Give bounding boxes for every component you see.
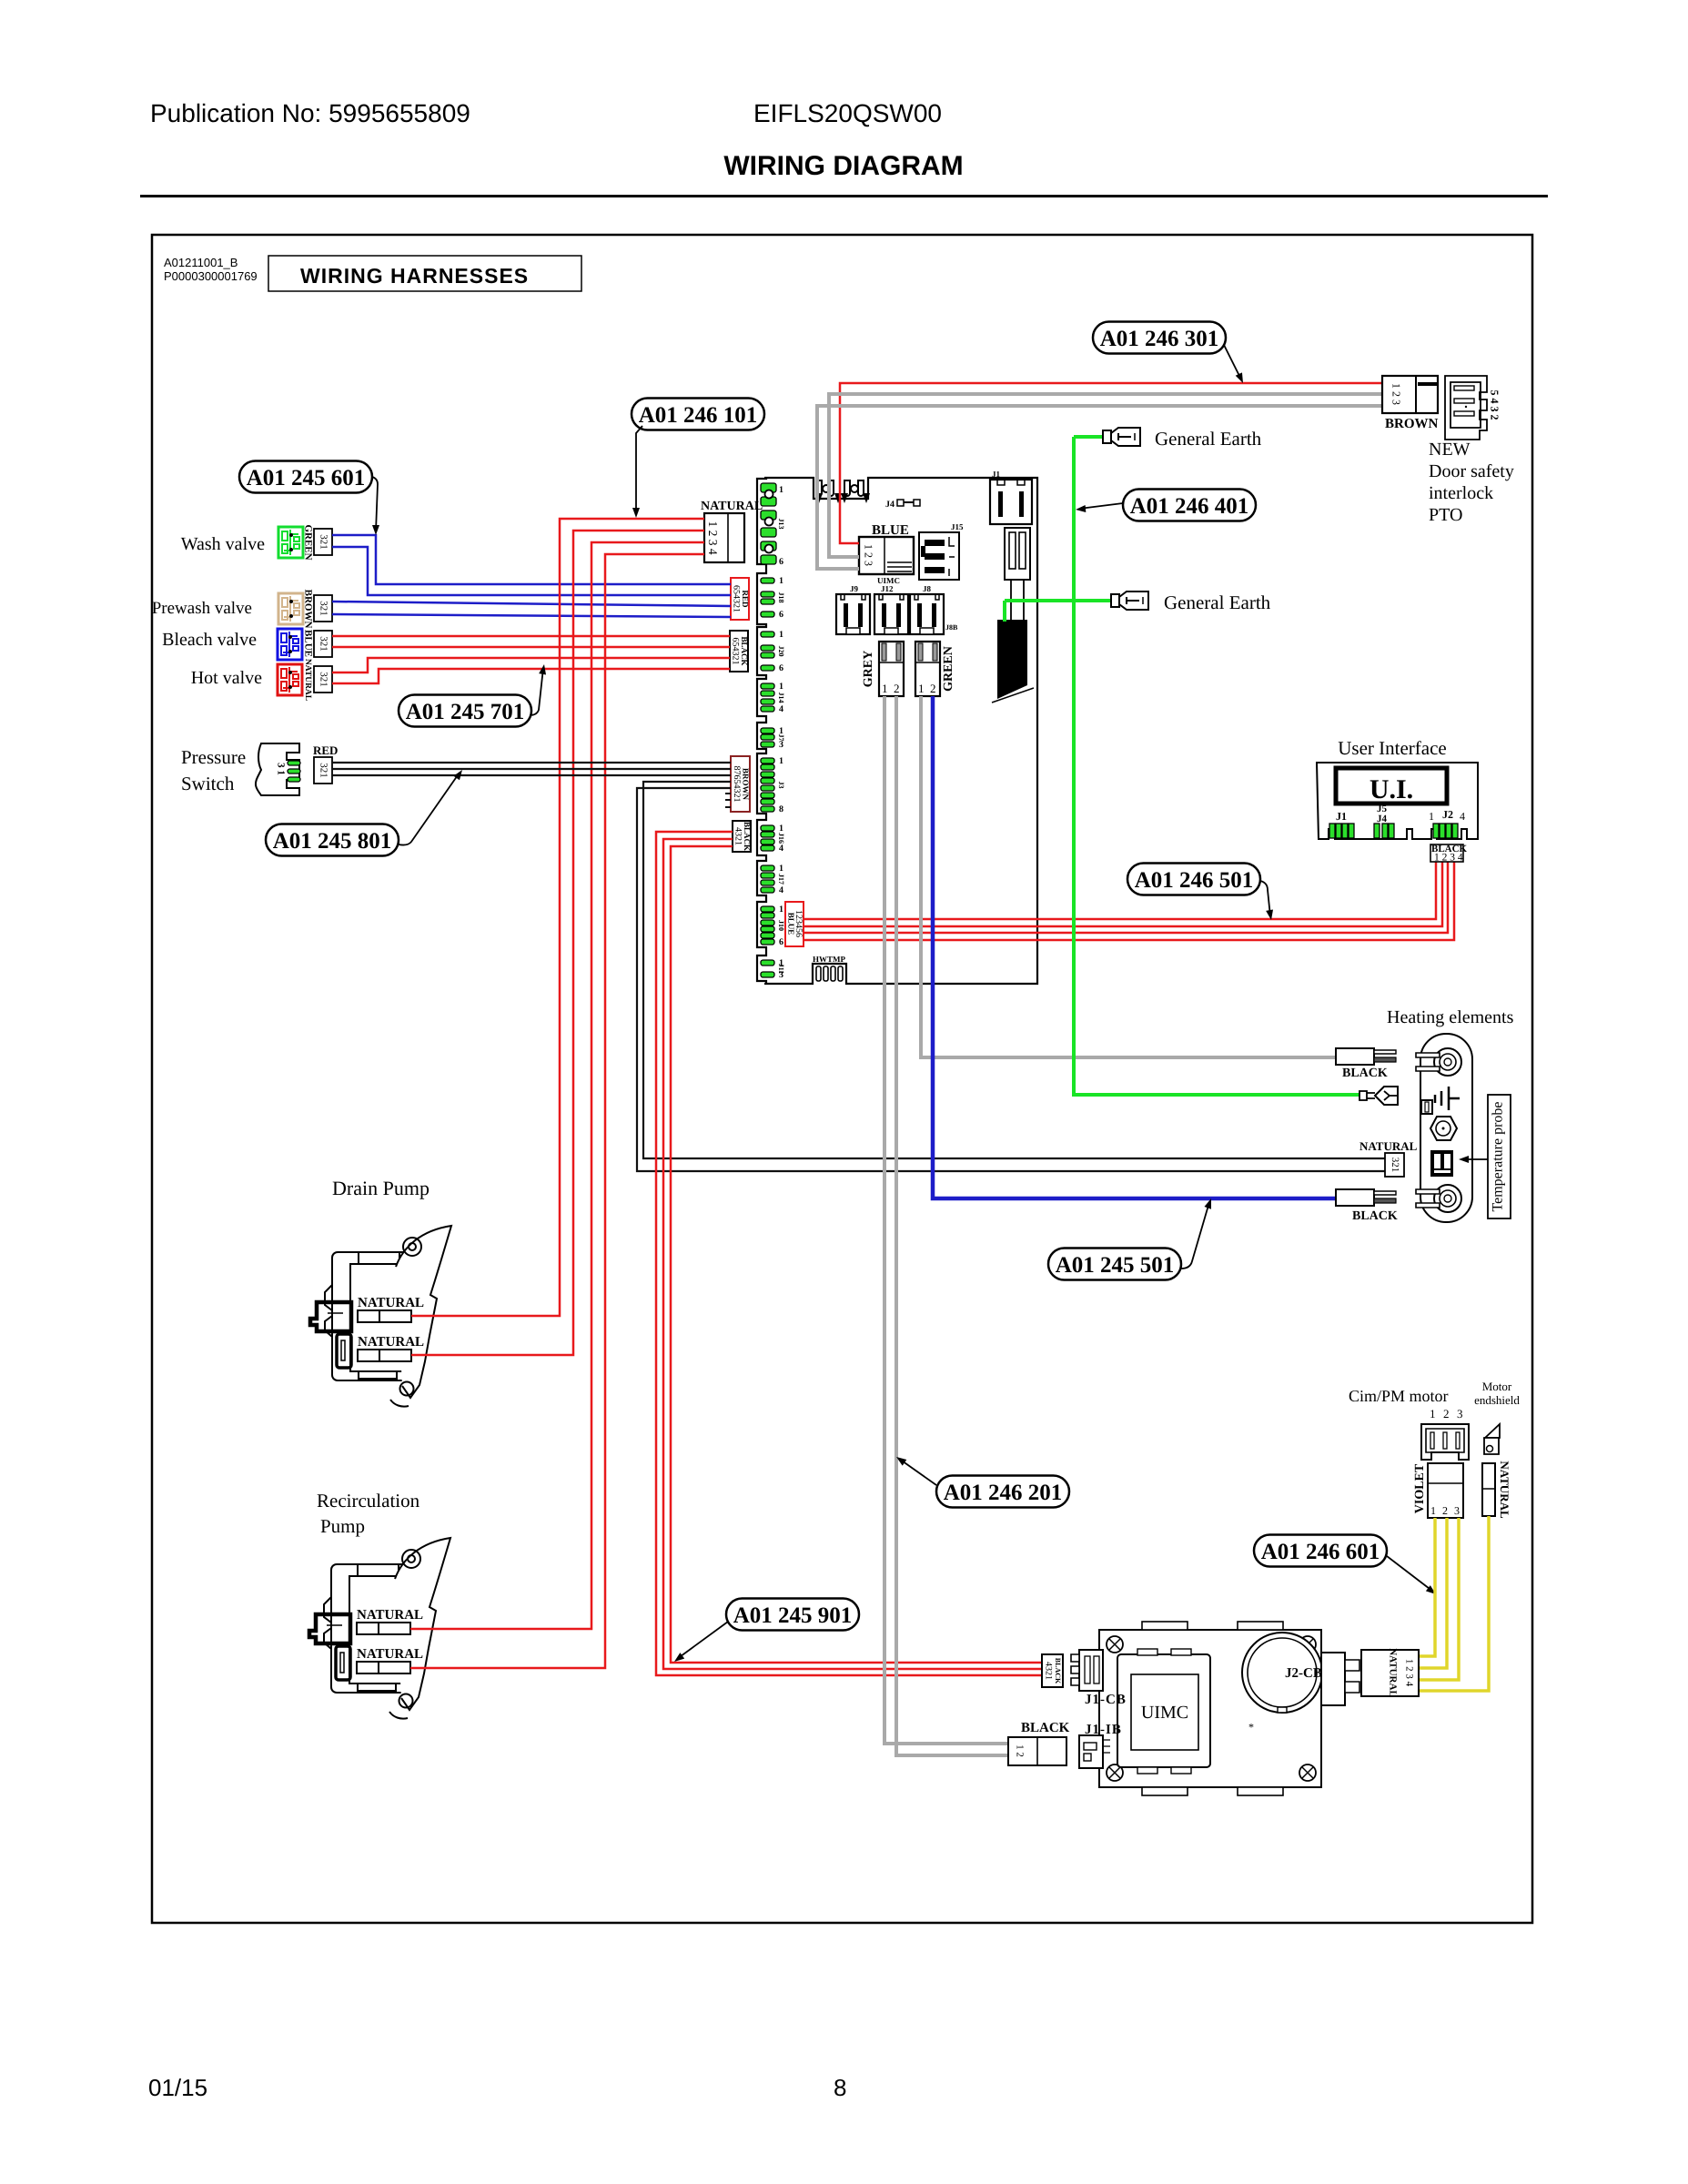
door lock block [997,620,1027,699]
control board outline [764,478,1037,984]
wire interlock grey 1 [829,394,1382,557]
svg-text:1: 1 [779,864,783,874]
wire yellow 2 [1419,1518,1447,1668]
svg-text:A01 246 101: A01 246 101 [639,403,758,428]
svg-text:NATURAL: NATURAL [358,1335,424,1350]
svg-text:4: 4 [779,844,783,854]
svg-text:4321: 4321 [1044,1662,1054,1680]
wire interlock grey 2 [817,406,1382,569]
svg-text:WIRING DIAGRAM: WIRING DIAGRAM [723,151,963,181]
wire temp probe black 1 [643,782,1385,1158]
label A01 245 701 [399,695,531,727]
svg-text:J14: J14 [777,693,785,703]
svg-text:BLACK: BLACK [1054,1658,1062,1684]
svg-text:General Earth: General Earth [1164,591,1271,613]
label A01 245 801 [266,824,399,856]
svg-text:321: 321 [318,534,329,550]
svg-text:BLACK: BLACK [740,636,749,665]
svg-text:8: 8 [779,804,783,814]
svg-text:Recirculation: Recirculation [317,1490,420,1512]
svg-text:J18: J18 [777,592,785,603]
svg-text:1: 1 [779,756,783,766]
svg-text:J12: J12 [881,584,894,593]
svg-text:4: 4 [779,704,783,714]
connector J7 pins [761,728,774,733]
svg-text:Cim/PM motor: Cim/PM motor [1349,1387,1449,1405]
svg-text:Heating elements: Heating elements [1387,1007,1514,1027]
svg-text:A01 246 601: A01 246 601 [1261,1540,1380,1564]
svg-text:Drain Pump: Drain Pump [332,1177,430,1199]
svg-text:A01 245 901: A01 245 901 [733,1603,853,1628]
bleach valve [278,629,302,660]
svg-text:1: 1 [779,682,783,692]
UIMC J1-CB connector [1079,1650,1103,1691]
wire general earth stub [1003,601,1006,622]
wire recirc pump red 2 [410,554,704,1668]
svg-text:BLUE: BLUE [872,523,909,538]
hot valve connector 321 [314,666,332,693]
svg-text:NATURAL: NATURAL [357,1647,423,1662]
svg-text:VIOLET: VIOLET [1413,1463,1427,1513]
svg-text:J16: J16 [777,833,785,844]
svg-text:J20: J20 [777,646,785,657]
svg-text:General Earth: General Earth [1155,428,1262,450]
svg-text:1 2 3: 1 2 3 [862,544,874,566]
UI display box [1336,768,1447,804]
svg-text:321: 321 [318,672,329,687]
wire bleach valve red 1 [332,635,730,638]
svg-text:Door safety: Door safety [1429,461,1514,481]
svg-text:87654321: 87654321 [732,766,742,803]
connector UIMC J12 [874,594,908,634]
svg-text:6: 6 [779,663,783,673]
connector J13 pins [761,483,776,492]
heating element terminal bottom [1434,1185,1461,1212]
svg-text:J8B: J8B [945,623,958,632]
svg-text:RED: RED [313,743,338,757]
svg-text:BLACK: BLACK [1352,1209,1398,1223]
svg-text:Temperature probe: Temperature probe [1491,1101,1506,1211]
svg-text:BLUE: BLUE [302,630,313,657]
svg-text:1: 1 [918,682,925,695]
wash valve [278,527,303,558]
svg-text:2: 2 [894,682,900,695]
svg-text:Wash valve: Wash valve [181,534,265,554]
connector J3 pins [761,758,774,763]
connector J20 pins [761,632,774,637]
wire pressure switch 2 [332,768,731,770]
svg-text:1 2 3 4: 1 2 3 4 [1403,1659,1414,1687]
UIMC screw BR [1299,1764,1316,1781]
label A01 246 501 [1127,864,1260,895]
svg-text:endshield: endshield [1474,1393,1520,1407]
svg-text:BROWN: BROWN [1385,417,1439,431]
svg-text:A01 246 301: A01 246 301 [1100,327,1219,351]
label A01 246 401 [1123,490,1256,521]
prewash valve [278,593,303,624]
wire UIMC red 2 [663,839,1044,1669]
wire grey motor 1 [884,696,1008,1744]
svg-text:J7: J7 [777,734,785,742]
wire pressure switch 3 [332,774,731,776]
svg-text:A01 245 601: A01 245 601 [247,466,366,490]
heating element probe socket [1430,1150,1453,1177]
wash valve connector 321 [314,529,332,555]
svg-text:4321: 4321 [733,827,743,845]
temperature probe box [1488,1095,1511,1218]
svg-text:3: 3 [1457,1407,1463,1421]
wire UI red 3 [804,861,1448,933]
cim VIOLET connector [1428,1463,1463,1518]
svg-text:NATURAL: NATURAL [358,1296,424,1310]
svg-text:J9: J9 [850,584,859,593]
svg-text:NATURAL: NATURAL [1498,1461,1511,1519]
board connector label 4321 BLACK [733,821,751,852]
wire temp probe black 2 [637,788,1385,1171]
heater blue terminal [1336,1189,1374,1206]
wire yellow 3 [1419,1518,1459,1680]
pressure switch body [256,743,299,795]
svg-text:1: 1 [1429,810,1434,823]
svg-text:J2: J2 [1442,808,1453,821]
svg-text:A01 245 701: A01 245 701 [406,700,525,724]
svg-text:J13: J13 [777,519,785,530]
svg-text:321: 321 [318,763,329,778]
wire yellow 1 [1419,1518,1435,1656]
svg-text:HWTMP: HWTMP [813,955,845,964]
svg-text:J10: J10 [777,920,785,931]
svg-text:1: 1 [779,905,783,915]
UIMC BLACK 12 connector [1008,1737,1066,1765]
label A01 246 201 [936,1476,1069,1508]
svg-text:1: 1 [1430,1407,1436,1421]
wire pressure switch 1 [332,762,731,763]
wire drain pump red 2 [411,531,704,1355]
svg-text:2: 2 [930,682,936,695]
fuse connector arrows [815,493,823,503]
svg-text:A01 246 201: A01 246 201 [944,1481,1063,1505]
svg-text:1 2 3 4: 1 2 3 4 [1434,853,1463,864]
UIMC inner module [1117,1654,1210,1767]
svg-text:*: * [1248,1721,1254,1734]
svg-text:NATURAL: NATURAL [357,1608,423,1623]
wire UI red 4 [804,861,1454,940]
recirculation pump [309,1538,450,1719]
svg-text:6: 6 [779,937,783,947]
svg-text:EIFLS20QSW00: EIFLS20QSW00 [753,99,942,127]
svg-text:WIRING HARNESSES: WIRING HARNESSES [300,264,529,288]
connector J11 pins [761,960,774,966]
cim motor connector [1421,1424,1469,1460]
wiring harnesses box [268,256,581,291]
UIMC J1-IB connector [1079,1735,1103,1768]
svg-text:A01 246 501: A01 246 501 [1135,868,1254,893]
UIMC screw TR [1299,1636,1316,1653]
svg-text:321: 321 [318,636,329,652]
general earth terminal 2 [1111,594,1119,607]
connector J18 pins [761,578,774,583]
wire UIMC red 1 [656,832,1044,1675]
label A01 246 101 [632,399,764,430]
bleach valve connector 321 [314,631,332,657]
UI BLACK connector [1430,844,1463,862]
wire recirc pump red 1 [410,542,704,1629]
svg-text:654321: 654321 [732,585,742,612]
svg-text:123456: 123456 [793,910,804,937]
svg-text:NATURAL: NATURAL [1387,1648,1398,1697]
svg-text:NATURAL: NATURAL [303,659,312,701]
svg-text:NATURAL: NATURAL [701,500,763,513]
heating element nut [1430,1117,1457,1140]
svg-text:J4: J4 [885,500,895,510]
title rule [140,195,1548,197]
connector J16 pins [761,825,774,831]
BLUE 123 connector [859,537,914,574]
general earth terminal 1 [1103,430,1111,443]
svg-text:1: 1 [779,576,783,586]
svg-text:A01 245 801: A01 245 801 [273,829,392,854]
svg-text:01/15: 01/15 [148,2074,207,2101]
svg-text:BLACK: BLACK [743,822,752,851]
svg-text:BLACK: BLACK [1342,1067,1388,1080]
svg-text:User Interface: User Interface [1338,737,1447,759]
wire interlock red [840,383,1382,543]
wire yellow 4 [1419,1516,1489,1691]
J15 connector [919,532,959,580]
svg-text:A01 246 401: A01 246 401 [1130,494,1249,519]
wire hot valve red 1 [332,658,730,672]
wire general earth spade 2 [1005,599,1111,602]
UIMC J2-CB circle [1242,1633,1322,1713]
svg-text:U.I.: U.I. [1370,774,1413,804]
svg-text:1 2: 1 2 [1014,1744,1025,1757]
wire grey motor 2 [896,696,1008,1755]
svg-text:BLACK: BLACK [1021,1721,1070,1735]
svg-text:Pressure: Pressure [181,746,246,768]
svg-text:J17: J17 [777,874,785,885]
svg-text:Hot valve: Hot valve [191,668,262,688]
svg-text:5 4 3 2: 5 4 3 2 [1488,390,1501,420]
label A01 245 601 [239,461,372,493]
svg-text:1: 1 [1430,1504,1436,1517]
svg-text:3: 3 [1454,1504,1460,1517]
wire general earth spade 1 [1074,435,1103,439]
svg-text:1 2 3 4: 1 2 3 4 [706,521,720,554]
diagram border [152,235,1532,1923]
board connector label 654321 BLACK [730,631,748,672]
svg-text:NEW: NEW [1429,440,1471,460]
heating element terminal top [1434,1048,1461,1076]
wire UIMC red 3 [671,846,1044,1663]
UIMC screw BL [1107,1764,1123,1781]
endshield connector [1482,1463,1495,1516]
UIMC right connector [1321,1653,1345,1705]
svg-text:GREY: GREY [862,651,875,687]
svg-text:J1: J1 [992,470,1001,479]
svg-text:J4: J4 [1377,814,1388,824]
svg-text:6: 6 [779,610,783,620]
UIMC NATURAL connector [1361,1650,1419,1696]
svg-text:321: 321 [1390,1158,1400,1173]
door lock connector [1005,528,1030,580]
svg-text:1: 1 [779,630,783,640]
svg-text:J8: J8 [923,584,932,593]
UIMC screw TL [1107,1636,1123,1653]
svg-text:interlock: interlock [1429,483,1493,503]
svg-text:Publication No: 5995655809: Publication No: 5995655809 [150,99,470,127]
board top fuse connector [816,480,822,496]
svg-text:Bleach valve: Bleach valve [162,630,257,650]
svg-text:3 1: 3 1 [275,763,286,775]
temp probe arrow [1462,1158,1488,1160]
wire bleach valve red 2 [332,646,730,649]
label A01 246 301 [1093,322,1226,354]
connector J10 pins [761,906,774,912]
board connector label 654321 RED [731,578,749,620]
svg-text:1 2 3: 1 2 3 [1390,383,1402,405]
svg-text:321: 321 [318,601,329,616]
BROWN interlock connector [1382,376,1438,413]
wire general earth vertical [1074,437,1361,1095]
connector J14 pins [761,683,774,689]
svg-text:2: 2 [1443,1407,1450,1421]
svg-text:4: 4 [779,885,783,895]
label A01 246 601 [1254,1535,1387,1567]
svg-text:J1: J1 [1336,810,1347,823]
svg-text:2: 2 [1442,1504,1448,1517]
board connector label 87654321 BROWN [731,756,750,812]
GREEN connector [915,642,940,696]
svg-text:8: 8 [834,2074,846,2101]
svg-text:GREEN: GREEN [942,646,955,692]
svg-text:Switch: Switch [181,773,235,794]
svg-text:A01 245 501: A01 245 501 [1056,1253,1175,1278]
svg-text:4: 4 [1460,810,1465,823]
wire blue heater [933,696,1336,1198]
heater green spade [1359,1091,1367,1100]
connector J1 [990,480,1032,524]
svg-text:J3: J3 [777,782,785,789]
label A01 245 501 [1048,1249,1181,1280]
GREY connector [879,642,904,696]
heating element body [1420,1034,1472,1222]
wire wash valve blue 2 [332,547,731,595]
user interface board [1317,763,1478,839]
svg-text:J1-CB: J1-CB [1085,1693,1127,1707]
door safety PTO connector [1445,376,1487,440]
svg-text:J15: J15 [951,522,964,531]
svg-text:RED: RED [741,590,750,608]
svg-text:UIMC: UIMC [1141,1703,1188,1723]
BROWN connector stubs [725,793,731,794]
connector J8 [910,594,944,634]
svg-text:1: 1 [882,682,888,695]
svg-text:6: 6 [779,557,783,567]
pressure switch connector 321 [314,757,332,784]
wire hot valve red 2 [332,669,730,683]
svg-text:P0000300001769: P0000300001769 [164,269,258,283]
svg-text:Prewash valve: Prewash valve [152,599,252,618]
svg-text:NATURAL: NATURAL [1359,1139,1418,1153]
wire wash valve blue 1 [332,535,731,584]
label A01 245 901 [726,1599,859,1631]
wire UI red 1 [804,861,1436,919]
board connector label BLUE 123456 [785,902,804,946]
wire UI red 2 [804,861,1442,926]
wire drain pump red 1 [411,519,704,1316]
temp probe connector [1385,1153,1404,1177]
svg-text:Pump: Pump [320,1515,365,1537]
svg-text:A01211001_B: A01211001_B [164,256,238,269]
svg-text:J11: J11 [777,964,785,975]
prewash valve connector 321 [314,595,332,622]
connector J9 [836,594,870,634]
svg-text:654321: 654321 [731,638,741,665]
board NATURAL connector [704,513,744,562]
wire prewash valve blue 1 [332,602,731,606]
heater grey terminal [1336,1048,1374,1065]
connector J17 pins [761,865,774,871]
svg-text:BROWN: BROWN [302,590,313,629]
heating element earth symbol [1435,1087,1460,1110]
svg-text:Motor: Motor [1482,1380,1512,1393]
UIMC 4321 BLACK connector [1042,1654,1063,1687]
hot valve [278,664,302,695]
motor endshield icon [1485,1424,1500,1438]
wire grey heater [921,696,1336,1057]
svg-text:J2-CB: J2-CB [1285,1666,1322,1681]
svg-text:3: 3 [779,740,783,750]
pressure switch pins [288,761,300,765]
drain pump [310,1226,451,1407]
wire prewash valve blue 2 [332,614,731,617]
UIMC box [1099,1630,1321,1787]
svg-text:PTO: PTO [1429,505,1462,525]
svg-text:BROWN: BROWN [742,768,751,801]
svg-text:GREEN: GREEN [302,524,313,560]
svg-text:1: 1 [779,485,783,495]
